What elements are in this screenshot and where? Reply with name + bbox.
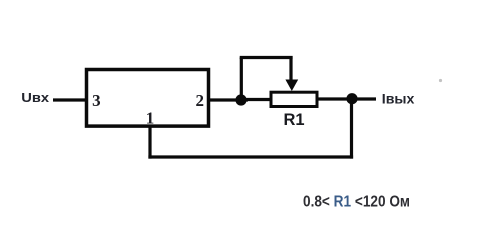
svg-text:R1: R1	[283, 111, 304, 129]
svg-text:2: 2	[196, 91, 205, 110]
wire wiper loop vertical right	[289, 56, 292, 82]
wire node A to resistor R1 left terminal	[241, 98, 271, 101]
wire bottom horizontal	[148, 155, 353, 158]
svg-text:3: 3	[92, 91, 101, 110]
wire node B down to bottom wire	[350, 99, 353, 159]
svg-text:Iвых: Iвых	[382, 91, 415, 107]
wire pin 2 to node A	[208, 98, 248, 101]
resistor R1 body	[271, 92, 317, 106]
svg-text:0.8< R1 <120 Ом: 0.8< R1 <120 Ом	[303, 194, 410, 211]
IC box	[87, 70, 209, 127]
node A junction dot	[235, 94, 246, 105]
wire wiper loop vertical left	[240, 58, 243, 103]
speck artifact	[439, 79, 442, 82]
wire node B to output	[352, 97, 376, 100]
svg-text:1: 1	[146, 108, 155, 127]
wire pin 1 down	[148, 126, 151, 159]
wiper arrowhead of R1	[285, 80, 298, 92]
wire input to pin 3	[53, 98, 88, 101]
wire resistor R1 right terminal to node B	[317, 97, 352, 100]
svg-text:Uвх: Uвх	[21, 90, 50, 105]
node B junction dot	[346, 93, 357, 104]
wire wiper loop horizontal top	[240, 56, 293, 59]
